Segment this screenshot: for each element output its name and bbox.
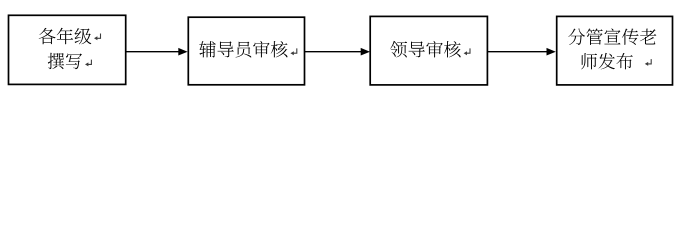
soft-return mark after 领导审核 [464,48,470,55]
box: step 1 各年级撰写 [9,15,126,84]
soft-return mark after 师发布 [645,59,651,66]
arrow: box1 to box2 [126,48,188,56]
text: 分管宣传老 (box 4 line 1) [568,28,656,44]
text: 各年级 (box 1 line 1) [39,28,92,45]
text: 师发布 (box 4 line 2) [581,53,633,70]
text: 撰写 (box 1 line 2) [48,53,82,69]
soft-return mark after 撰写 [85,60,91,67]
text: 辅导员审核 (box 2) [199,41,287,58]
arrow: box2 to box3 [305,48,371,56]
soft-return mark after 辅导员审核 [290,48,296,55]
soft-return mark after 各年级 [94,34,101,41]
text: 领导审核 (box 3) [390,41,460,58]
box: step 3 领导审核 [370,16,487,85]
box: step 4 分管宣传老师发布 [557,16,673,85]
box: step 2 辅导员审核 [188,17,304,85]
arrow: box3 to box4 [487,48,555,56]
